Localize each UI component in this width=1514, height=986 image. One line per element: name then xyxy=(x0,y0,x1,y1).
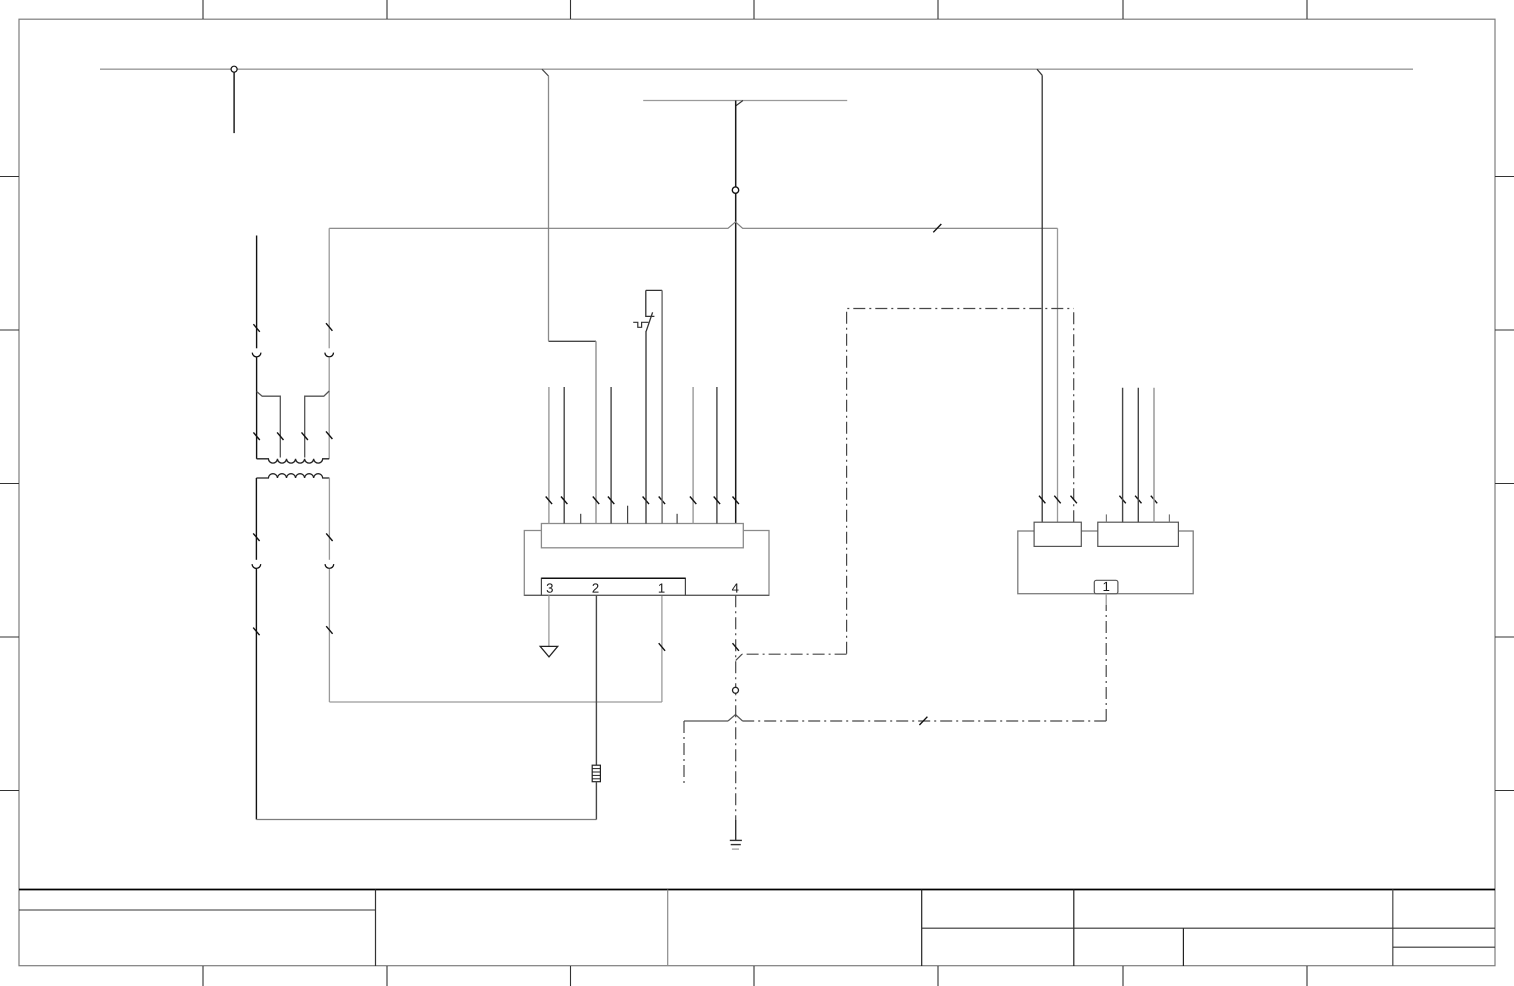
transformer T1 primary left lead xyxy=(256,236,258,349)
X2 right block pin i xyxy=(1122,388,1124,522)
X1 pin a xyxy=(548,387,550,524)
breaker lower lead xyxy=(645,331,647,524)
wire: bottom rail to resistor leg xyxy=(256,819,596,821)
wire: horizontal net y=228 from transformer to right block xyxy=(329,222,1057,228)
centering tick marks top edge xyxy=(203,0,1307,19)
wire: dash-dot horizontal y=721 with hop xyxy=(743,720,1107,722)
node: connector point circle on pin4 drop xyxy=(733,687,739,693)
pin label 2 xyxy=(592,583,598,592)
wire: rail y=702 to connector pin 1 xyxy=(329,701,662,703)
node: connector point circle on pin4 drop xyxy=(732,187,738,193)
transformer T1 secondary winding xyxy=(256,474,329,478)
X1 pin d xyxy=(692,387,694,524)
wire: branch from bus to pin 2 jog (kink) xyxy=(542,69,549,76)
transformer T1 primary winding xyxy=(257,459,330,463)
connector X2 terminal 1 box xyxy=(1094,580,1118,593)
pin 2 lead to resistor xyxy=(595,595,597,765)
node: bus tap with connector point circle xyxy=(233,72,235,133)
conductor marks on X1 pins xyxy=(546,497,739,505)
X2 stub pin m xyxy=(1168,514,1170,522)
centering tick marks right edge xyxy=(1495,177,1514,791)
wire: right block second pin drop xyxy=(1057,228,1059,522)
wire: dash-dot stub down-left xyxy=(683,721,685,784)
conductor mark xyxy=(302,432,308,440)
X1 stub pin g xyxy=(627,506,629,524)
X1 pin c xyxy=(610,387,612,524)
terminal label 1 xyxy=(1104,582,1110,591)
connector X1 outer body xyxy=(524,531,769,596)
resistor element R1 xyxy=(592,765,600,782)
conductor mark xyxy=(253,628,259,636)
X1 stub pin f xyxy=(580,514,582,524)
conductor mark xyxy=(326,626,332,634)
earth ground symbol xyxy=(730,840,742,844)
connector X2 outer body xyxy=(1018,531,1193,594)
plug connector cup on primary right lead xyxy=(325,353,334,357)
conductor mark xyxy=(326,431,332,439)
X2 right block pin j xyxy=(1137,388,1139,522)
centering tick marks left edge xyxy=(0,177,19,791)
connector X1 terminal label strip xyxy=(541,578,685,595)
conductor mark xyxy=(277,432,283,440)
X1 pin b xyxy=(563,387,565,524)
conductor mark on y=228 net xyxy=(933,224,941,232)
conductor mark xyxy=(253,432,259,440)
conductor mark on pin1 lead xyxy=(659,643,665,651)
transformer T1 primary inner tap right xyxy=(305,391,330,458)
conductor mark xyxy=(326,323,332,331)
breaker loop right leg xyxy=(661,290,663,523)
connector X2 left plug block xyxy=(1034,522,1081,546)
wire: pin 4 dash-dot drop to ground xyxy=(735,595,737,820)
wire: dash-dot control net top y=308 xyxy=(847,309,1074,654)
branch kink pin4 to dash-dot rail y=654 xyxy=(736,654,742,660)
pin 3 chassis arrow xyxy=(548,595,550,647)
conductor mark xyxy=(253,533,259,541)
pin label 4 xyxy=(732,584,739,593)
wire: upper stub net at y=101 xyxy=(643,100,847,102)
X2 stub pin l xyxy=(1105,514,1107,522)
breaker fixed contact xyxy=(646,290,655,316)
plug connector cup on primary left lead xyxy=(252,353,261,357)
plug connector cup on secondary right lead xyxy=(325,564,334,568)
wire: dash-dot from X2 terminal 1 down and across xyxy=(1105,594,1107,605)
title block xyxy=(19,890,1495,967)
wire: bus branch kink to right block first pin xyxy=(1037,69,1042,75)
transformer T1 secondary left lead down to bottom rail xyxy=(255,478,257,560)
centering tick marks bottom edge xyxy=(203,966,1307,986)
transformer T1 secondary right lead xyxy=(328,478,330,560)
conductor mark on pin 4 drop xyxy=(733,643,739,651)
pin label 1 xyxy=(659,584,665,593)
pin 2 lead below resistor xyxy=(595,782,597,820)
breaker actuator linkage xyxy=(633,322,648,327)
conductor mark xyxy=(326,533,332,541)
transformer T1 primary inner tap left xyxy=(257,392,281,458)
conductor mark xyxy=(253,324,259,332)
plug connector cup on secondary left lead xyxy=(252,564,261,568)
X1 pin e xyxy=(716,387,718,524)
X2 right block pin k xyxy=(1153,388,1155,522)
connector X1 pin row strip xyxy=(541,524,743,548)
breaker moving contact xyxy=(646,312,652,331)
pin label 3 xyxy=(547,583,553,592)
wire: L1 supply bus xyxy=(100,68,1413,70)
wire: pin 4 drop from y=101 to connector xyxy=(735,101,737,524)
conductor marks on X2 pins xyxy=(1039,496,1157,504)
connector X2 right plug block xyxy=(1098,522,1179,546)
breaker contact loop over pin: top bar xyxy=(646,289,662,291)
transformer T1 primary right lead xyxy=(328,228,330,348)
conductor mark on y=721 net xyxy=(919,717,927,725)
X1 stub pin h xyxy=(676,514,678,524)
